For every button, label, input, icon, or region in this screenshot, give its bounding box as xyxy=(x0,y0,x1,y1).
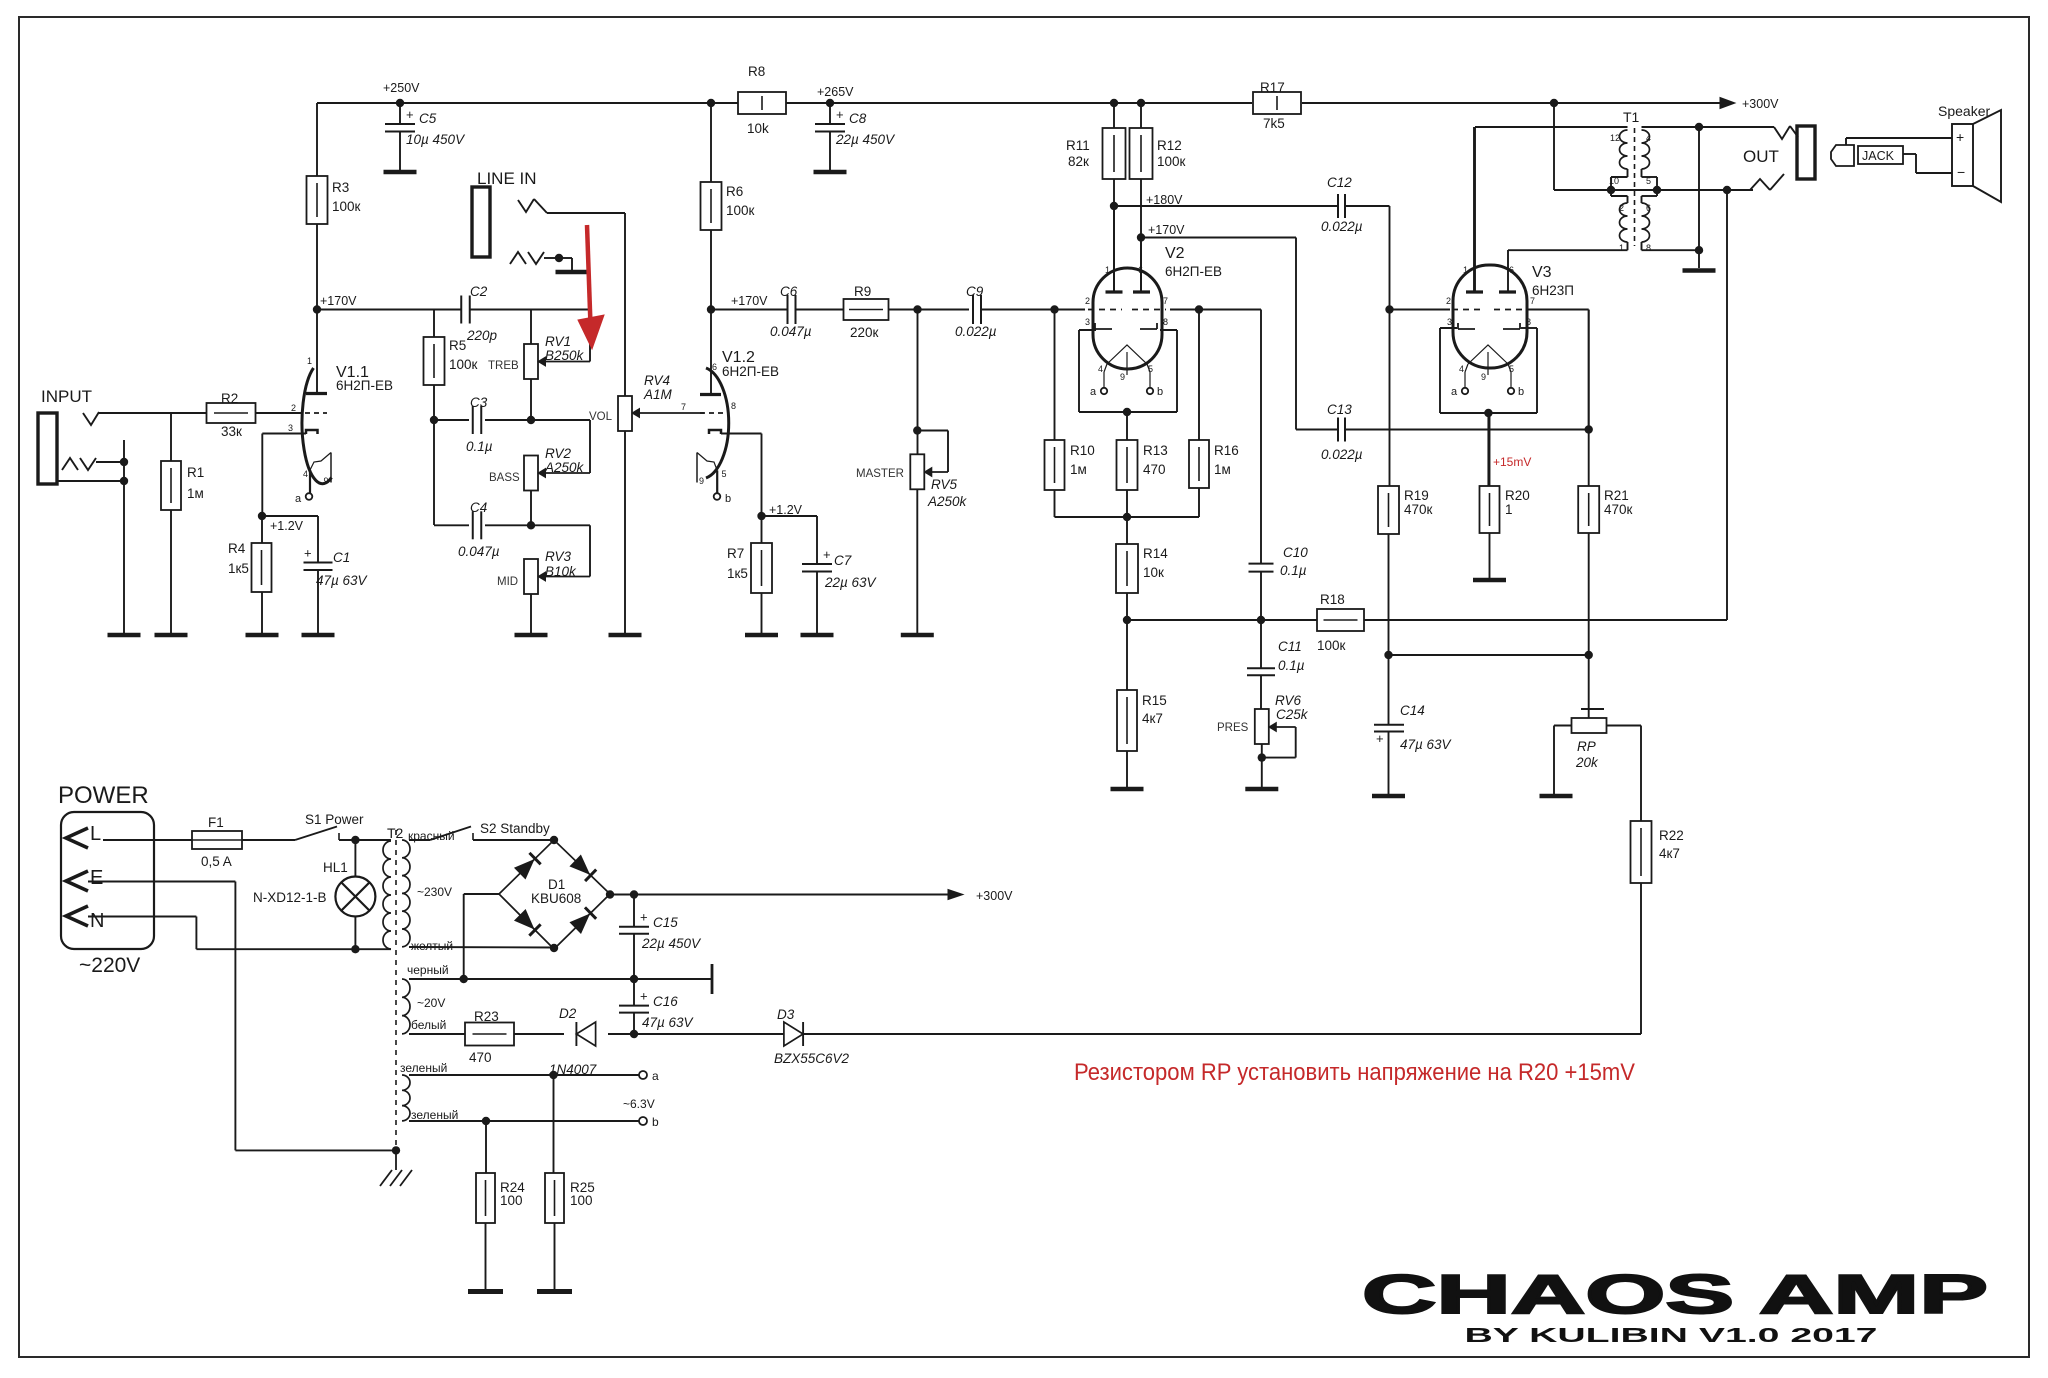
svg-text:JACK: JACK xyxy=(1862,149,1895,163)
ground for R20 xyxy=(1473,578,1506,583)
svg-text:10к: 10к xyxy=(1143,565,1164,580)
svg-text:470: 470 xyxy=(1143,462,1166,477)
svg-text:R10: R10 xyxy=(1070,443,1095,458)
svg-text:7: 7 xyxy=(1530,296,1535,306)
svg-text:RV6: RV6 xyxy=(1275,693,1302,708)
node bridge AC vertices xyxy=(550,836,558,844)
ground for RP xyxy=(1540,794,1573,799)
resistor R16 1м xyxy=(1198,310,1200,441)
svg-text:Резистором RP установить напря: Резистором RP установить напряжение на R… xyxy=(1074,1059,1635,1086)
resistor R19 470к xyxy=(1389,310,1391,487)
potentiometer RV4 A1M VOL xyxy=(624,213,626,396)
wire черный row xyxy=(409,978,712,980)
ground for R24 xyxy=(468,1289,503,1294)
resistor R5 100к xyxy=(433,310,435,338)
svg-text:100к: 100к xyxy=(1157,154,1186,169)
svg-text:22µ 63V: 22µ 63V xyxy=(824,575,878,590)
node T2 core ground xyxy=(392,1146,400,1154)
resistor R17 7k5 xyxy=(1253,92,1301,114)
wire NFB bus xyxy=(1127,619,1317,621)
ground for LINE IN xyxy=(556,270,589,275)
capacitor C16 47µ 63V electrolytic xyxy=(633,979,635,1006)
svg-text:+170V: +170V xyxy=(1148,223,1185,237)
svg-text:a: a xyxy=(1451,386,1458,398)
svg-text:R17: R17 xyxy=(1260,80,1285,95)
pin 3 cathode left of V2 xyxy=(1095,328,1112,330)
transformer T2 core xyxy=(395,830,397,1148)
terminal a heater xyxy=(639,1071,647,1079)
capacitor C11 0.1µ xyxy=(1260,620,1262,668)
svg-text:8: 8 xyxy=(731,401,736,411)
svg-text:1м: 1м xyxy=(187,486,204,501)
chassis ground symbol xyxy=(395,1150,397,1170)
svg-text:10µ 450V: 10µ 450V xyxy=(406,132,466,147)
pin 1 anode left of V3 xyxy=(1473,127,1475,292)
svg-text:C12: C12 xyxy=(1327,175,1352,190)
svg-text:C10: C10 xyxy=(1283,545,1308,560)
svg-text:A250k: A250k xyxy=(927,494,968,509)
svg-text:+: + xyxy=(1956,129,1964,145)
svg-text:KBU608: KBU608 xyxy=(531,891,581,906)
svg-text:7k5: 7k5 xyxy=(1263,116,1285,131)
svg-text:R20: R20 xyxy=(1505,488,1530,503)
wire mains L to fuse xyxy=(103,839,192,841)
capacitor C8 22µ 450V electrolytic xyxy=(829,103,831,124)
node T1 pins 5-6 tie xyxy=(1653,186,1661,194)
wire T1 pin12 to V3 anode left xyxy=(1475,126,1628,128)
svg-text:−: − xyxy=(1957,164,1965,180)
heater of V3 pins 4 5 9 xyxy=(1468,345,1508,364)
svg-text:3: 3 xyxy=(288,423,293,433)
node +170V at V1.1 anode xyxy=(313,305,321,313)
node LINE IN sleeve xyxy=(555,254,563,262)
node tone stack C3 row xyxy=(430,416,438,424)
svg-text:0.047µ: 0.047µ xyxy=(770,324,812,339)
pin 7 grid right of V2 xyxy=(1132,309,1166,311)
resistor R3 100к xyxy=(316,103,318,176)
svg-text:BY KULIBIN V1.0 2017: BY KULIBIN V1.0 2017 xyxy=(1465,1325,1878,1347)
svg-text:R1: R1 xyxy=(187,465,204,480)
svg-text:+: + xyxy=(823,547,831,562)
resistor R4 1к5 xyxy=(261,516,263,543)
potentiometer RV3 B10k MID xyxy=(524,559,538,594)
svg-text:1: 1 xyxy=(1463,265,1468,275)
svg-text:N: N xyxy=(90,910,104,932)
svg-text:+170V: +170V xyxy=(320,294,357,308)
svg-text:6: 6 xyxy=(1646,203,1651,213)
svg-text:22µ 450V: 22µ 450V xyxy=(641,936,702,951)
svg-text:470к: 470к xyxy=(1604,502,1633,517)
svg-text:черный: черный xyxy=(407,963,449,977)
svg-text:4: 4 xyxy=(1098,364,1103,374)
svg-text:b: b xyxy=(652,1115,659,1129)
wire bridge plus rail +300V xyxy=(610,894,948,896)
resistor R10 1м xyxy=(1054,310,1056,441)
potentiometer RV1 B250k TREB xyxy=(530,310,532,345)
svg-text:0.1µ: 0.1µ xyxy=(1280,563,1307,578)
potentiometer RV2 A250k BASS xyxy=(524,456,538,491)
svg-text:100: 100 xyxy=(570,1193,593,1208)
ground for INPUT jack xyxy=(108,633,141,638)
svg-text:V2: V2 xyxy=(1165,245,1185,262)
svg-text:1: 1 xyxy=(1105,265,1110,275)
ground for R15 xyxy=(1111,787,1144,792)
svg-text:6: 6 xyxy=(1138,265,1143,275)
svg-text:a: a xyxy=(652,1069,659,1083)
svg-text:~220V: ~220V xyxy=(79,954,140,977)
node OUT jack sleeve to NFB xyxy=(1723,186,1731,194)
svg-text:D1: D1 xyxy=(548,877,565,892)
pin 2 grid left of V2 xyxy=(1055,309,1086,311)
node NFB bus left end xyxy=(1123,616,1131,624)
wire +170V row to tone stack xyxy=(317,309,461,311)
svg-text:R23: R23 xyxy=(474,1009,499,1024)
node heater b to R24 xyxy=(482,1117,490,1125)
svg-text:E: E xyxy=(90,867,103,889)
svg-text:+: + xyxy=(640,910,648,925)
node bridge plus xyxy=(606,890,614,898)
capacitor C15 22µ 450V electrolytic xyxy=(633,895,635,927)
svg-text:6Н2П-ЕВ: 6Н2П-ЕВ xyxy=(1165,264,1222,279)
transformer T1 secondary winding 6-8 xyxy=(1642,203,1650,242)
transformer T1 primary winding 2-1 xyxy=(1620,203,1628,242)
resistor R21 470к xyxy=(1588,310,1590,486)
resistor R8 10k xyxy=(738,92,786,114)
svg-text:C9: C9 xyxy=(966,284,984,299)
node черный junctions xyxy=(460,975,468,983)
svg-text:HL1: HL1 xyxy=(323,860,348,875)
svg-text:0.022µ: 0.022µ xyxy=(1321,219,1363,234)
svg-text:1: 1 xyxy=(1505,502,1513,517)
svg-text:9: 9 xyxy=(699,476,704,486)
node input jack sleeve junctions xyxy=(120,458,128,466)
resistor R23 470 xyxy=(465,1023,514,1046)
terminal b of V1.2 heater xyxy=(714,493,721,500)
pin 2 grid left of V3 xyxy=(1390,309,1451,311)
ground for R25 xyxy=(537,1289,572,1294)
node C16 to white rail xyxy=(630,1030,638,1038)
node R21 top grid leak xyxy=(1585,425,1593,433)
svg-text:R9: R9 xyxy=(854,284,871,299)
svg-text:b: b xyxy=(725,493,731,505)
svg-text:4: 4 xyxy=(303,469,308,479)
svg-text:RP: RP xyxy=(1577,739,1596,754)
capacitor C3 0.1µ xyxy=(472,406,474,434)
svg-text:C13: C13 xyxy=(1327,402,1352,417)
svg-text:R14: R14 xyxy=(1143,546,1168,561)
capacitor C5 10µ 450V electrolytic xyxy=(399,103,401,124)
svg-text:MID: MID xyxy=(497,576,518,588)
pin 3 cathode of V1.1 xyxy=(306,430,318,434)
svg-text:C4: C4 xyxy=(470,500,487,515)
pin 1 anode of V1.1 xyxy=(316,310,318,393)
ground for RV6 xyxy=(1245,787,1278,792)
resistor R20 1 xyxy=(1489,413,1491,486)
pin 8 cathode right of V3 xyxy=(1503,328,1520,330)
wire heater a row xyxy=(409,1074,639,1076)
svg-text:470к: 470к xyxy=(1404,502,1433,517)
svg-text:47µ 63V: 47µ 63V xyxy=(316,573,369,588)
svg-text:6: 6 xyxy=(1509,265,1514,275)
svg-text:5: 5 xyxy=(1509,364,1514,374)
svg-text:C5: C5 xyxy=(419,111,437,126)
svg-text:C2: C2 xyxy=(470,284,488,299)
svg-text:33к: 33к xyxy=(221,424,242,439)
resistor R2 33к xyxy=(207,403,256,423)
svg-text:2: 2 xyxy=(1085,296,1090,306)
ground for C8 xyxy=(814,170,847,175)
svg-text:RV5: RV5 xyxy=(931,477,958,492)
svg-text:R7: R7 xyxy=(727,546,744,561)
wire +250V/+265V/+300V top supply rail xyxy=(317,102,738,104)
pin 6 anode right of V3 xyxy=(1507,250,1509,292)
svg-text:220p: 220p xyxy=(466,328,498,343)
svg-text:22µ 450V: 22µ 450V xyxy=(835,132,896,147)
pin 8 cathode of V1.2 xyxy=(709,430,721,434)
heater of V1.2 pins 5 9 xyxy=(696,453,698,477)
svg-text:R4: R4 xyxy=(228,541,246,556)
svg-text:R12: R12 xyxy=(1157,138,1182,153)
svg-text:10k: 10k xyxy=(747,121,769,136)
node heater a to R25 xyxy=(549,1071,557,1079)
resistor R7 1к5 xyxy=(761,516,763,543)
svg-text:R11: R11 xyxy=(1066,138,1090,153)
tube V2 6Н2П-ЕВ double triode xyxy=(1093,268,1162,369)
pin 7 grid of V1.2 xyxy=(700,412,724,414)
svg-text:100к: 100к xyxy=(1317,638,1346,653)
tube V1.2 6Н2П-ЕВ triode half xyxy=(706,368,729,478)
svg-text:6Н23П: 6Н23П xyxy=(1532,283,1574,298)
resistor R18 100к xyxy=(1317,609,1364,631)
svg-text:Speaker: Speaker xyxy=(1938,103,1990,119)
svg-text:+170V: +170V xyxy=(731,294,768,308)
wire желтый to bridge xyxy=(409,946,554,949)
svg-text:R22: R22 xyxy=(1659,828,1684,843)
svg-text:+250V: +250V xyxy=(383,81,420,95)
svg-text:BZX55C6V2: BZX55C6V2 xyxy=(774,1051,850,1066)
svg-text:1: 1 xyxy=(1619,243,1624,253)
wire mains N to T2 primary bottom xyxy=(88,916,196,918)
svg-text:зеленый: зеленый xyxy=(411,1108,458,1122)
heater of V1.1 pins 4 9 xyxy=(330,453,332,477)
svg-text:T1: T1 xyxy=(1623,109,1640,125)
svg-text:C7: C7 xyxy=(834,553,852,568)
wire белый row xyxy=(409,1033,465,1035)
svg-text:D2: D2 xyxy=(559,1006,577,1021)
svg-text:9: 9 xyxy=(324,476,329,486)
svg-text:+: + xyxy=(1376,731,1384,746)
terminal b of V3 heater xyxy=(1508,388,1514,394)
resistor R25 100 xyxy=(553,1075,555,1173)
wire cathode resistors bottom bus xyxy=(1055,516,1200,518)
node V2 grid left xyxy=(1050,305,1058,313)
wire +170V feed to C13 xyxy=(1141,237,1296,239)
pin 6 anode right of V2 xyxy=(1140,238,1142,293)
node V3 grid coupling xyxy=(1385,305,1393,313)
transformer T2 heater winding 6.3V xyxy=(402,1075,410,1121)
node +170V at R12 xyxy=(1137,233,1145,241)
svg-text:6Н2П-ЕВ: 6Н2П-ЕВ xyxy=(336,378,393,393)
connector JACK plug xyxy=(1831,145,1854,166)
svg-text:7: 7 xyxy=(681,402,686,412)
svg-text:+265V: +265V xyxy=(817,85,854,99)
svg-text:+: + xyxy=(640,989,648,1004)
svg-text:MASTER: MASTER xyxy=(856,468,904,480)
svg-text:82к: 82к xyxy=(1068,154,1089,169)
wire +180V to C12 xyxy=(1114,205,1338,207)
terminal b of V2 heater xyxy=(1147,388,1153,394)
pin 1 anode left of V2 xyxy=(1113,206,1115,292)
node HL1 bottom xyxy=(351,945,359,953)
node +1.2V at V1.1 cathode xyxy=(261,434,263,517)
svg-text:+: + xyxy=(406,107,414,122)
svg-text:R15: R15 xyxy=(1142,693,1167,708)
capacitor C6 0.047µ xyxy=(711,309,788,311)
svg-text:C14: C14 xyxy=(1400,703,1425,718)
resistor R22 4к7 xyxy=(1631,821,1652,883)
cathode return box of V3 xyxy=(1439,328,1441,413)
wire +300V to T1 center tap xyxy=(1553,103,1555,190)
ground for RV4 xyxy=(609,633,642,638)
node master volume tap xyxy=(913,305,921,313)
svg-text:47µ 63V: 47µ 63V xyxy=(1400,737,1453,752)
svg-text:6Н2П-ЕВ: 6Н2П-ЕВ xyxy=(722,364,779,379)
wire heater b row xyxy=(409,1120,639,1122)
svg-text:47µ 63V: 47µ 63V xyxy=(642,1015,695,1030)
ground for R4 xyxy=(246,633,279,638)
svg-text:R5: R5 xyxy=(449,338,466,353)
svg-text:100к: 100к xyxy=(332,199,361,214)
transformer T2 HV secondary winding xyxy=(402,840,410,947)
ground for C1 xyxy=(302,633,335,638)
svg-text:R19: R19 xyxy=(1404,488,1429,503)
svg-text:a: a xyxy=(295,493,302,505)
svg-text:S2 Standby: S2 Standby xyxy=(480,821,550,836)
diode D2 1N4007 xyxy=(576,1022,595,1046)
ground for R7 xyxy=(745,633,778,638)
capacitor C12 0.022µ xyxy=(1337,194,1339,218)
capacitor C4 0.047µ xyxy=(472,511,474,539)
svg-text:4: 4 xyxy=(1459,364,1464,374)
potentiometer RP 20k preset xyxy=(1588,655,1590,709)
svg-text:8: 8 xyxy=(1526,317,1531,327)
svg-text:C15: C15 xyxy=(653,915,678,930)
rectifier D1 KBU608 bridge xyxy=(499,840,610,949)
wire красный to S2 xyxy=(409,839,430,841)
node C10 to NFB bus xyxy=(1257,616,1265,624)
svg-text:L: L xyxy=(90,823,101,845)
capacitor C10 0.1µ xyxy=(1199,309,1261,311)
svg-text:100к: 100к xyxy=(726,203,755,218)
node T1 pins 10-2 tie xyxy=(1607,186,1615,194)
svg-text:7: 7 xyxy=(1163,296,1168,306)
svg-text:POWER: POWER xyxy=(58,782,149,809)
svg-text:0.022µ: 0.022µ xyxy=(955,324,997,339)
svg-text:A1M: A1M xyxy=(643,387,673,402)
svg-text:C25k: C25k xyxy=(1276,707,1309,722)
svg-text:a: a xyxy=(1090,386,1097,398)
svg-text:PRES: PRES xyxy=(1217,722,1249,734)
svg-text:0.1µ: 0.1µ xyxy=(1278,658,1305,673)
svg-text:2: 2 xyxy=(1446,296,1451,306)
capacitor C7 22µ 63V electrolytic xyxy=(762,515,818,517)
svg-text:C3: C3 xyxy=(470,395,488,410)
svg-text:12: 12 xyxy=(1610,133,1620,143)
svg-text:0,5 A: 0,5 A xyxy=(201,854,232,869)
svg-text:VOL: VOL xyxy=(589,411,613,423)
node tone stack C4 row xyxy=(527,521,535,529)
pin 3 cathode left of V3 xyxy=(1458,328,1475,330)
node R21 RP junction xyxy=(1585,651,1593,659)
node R13 bottom xyxy=(1123,513,1131,521)
pin 2 grid of V1.1 xyxy=(256,412,303,414)
node +170V at V1.2 anode xyxy=(707,305,715,313)
resistor R1 1м xyxy=(170,413,172,461)
heater of V2 pins 4 5 9 xyxy=(1107,345,1147,364)
svg-text:R21: R21 xyxy=(1604,488,1629,503)
svg-text:+15mV: +15mV xyxy=(1493,455,1531,469)
node R19 C14 junction xyxy=(1384,651,1392,659)
svg-text:R6: R6 xyxy=(726,184,743,199)
svg-text:OUT: OUT xyxy=(1743,147,1779,166)
node V2 cathode junction xyxy=(1123,408,1131,416)
svg-text:9: 9 xyxy=(1120,372,1125,382)
lamp HL1 N-XD12-1-B xyxy=(354,840,356,877)
svg-text:220к: 220к xyxy=(850,325,879,340)
wire C13 to V3 grid leak xyxy=(1345,429,1589,431)
potentiometer RV5 A250k MASTER xyxy=(917,310,919,455)
svg-text:R13: R13 xyxy=(1143,443,1168,458)
svg-text:TREB: TREB xyxy=(488,360,519,372)
svg-text:1м: 1м xyxy=(1214,462,1231,477)
svg-text:зеленый: зеленый xyxy=(400,1061,447,1075)
fuse F1 0,5 A xyxy=(192,831,242,849)
pin 8 cathode right of V2 xyxy=(1140,328,1157,330)
svg-text:1м: 1м xyxy=(1070,462,1087,477)
node RV5 wiper tie xyxy=(913,426,921,434)
svg-text:b: b xyxy=(1518,386,1524,398)
svg-text:2: 2 xyxy=(291,403,296,413)
tube V1.1 6Н2П-ЕВ triode half xyxy=(302,368,332,484)
svg-text:b: b xyxy=(1157,386,1163,398)
connector mains inlet L E N xyxy=(61,812,154,949)
svg-text:C16: C16 xyxy=(653,994,678,1009)
svg-text:1к5: 1к5 xyxy=(727,566,748,581)
node V2 grid right xyxy=(1195,305,1203,313)
svg-text:желтый: желтый xyxy=(411,939,453,953)
svg-text:20k: 20k xyxy=(1575,755,1599,770)
svg-text:C1: C1 xyxy=(333,550,350,565)
svg-text:D3: D3 xyxy=(777,1007,795,1022)
svg-text:2: 2 xyxy=(1619,203,1624,213)
svg-text:4к7: 4к7 xyxy=(1142,711,1163,726)
ground for C14 xyxy=(1372,794,1405,799)
transformer T1 secondary winding 4-5 xyxy=(1642,130,1650,169)
diode D3 BZX55C6V2 zener xyxy=(634,1033,784,1035)
svg-text:~20V: ~20V xyxy=(417,996,445,1010)
node RV6 wiper tie xyxy=(1258,753,1266,761)
node T1 pin8 xyxy=(1695,246,1703,254)
chassis tie bar xyxy=(711,964,714,994)
svg-text:BASS: BASS xyxy=(489,472,520,484)
svg-text:3: 3 xyxy=(1085,317,1090,327)
svg-text:+300V: +300V xyxy=(1742,97,1779,111)
potentiometer RV6 C25k PRES xyxy=(1255,709,1269,744)
svg-text:S1 Power: S1 Power xyxy=(305,812,364,827)
node +250V rail junctions xyxy=(396,99,404,107)
resistor R12 100к xyxy=(1140,103,1142,128)
svg-text:1к5: 1к5 xyxy=(228,561,249,576)
